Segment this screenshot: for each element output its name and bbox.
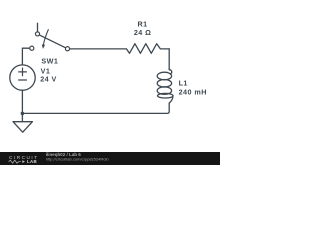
svg-text:LAB: LAB bbox=[27, 159, 37, 164]
svg-text:24 Ω: 24 Ω bbox=[134, 28, 152, 37]
voltage source V1 bbox=[10, 65, 35, 90]
svg-text:L1: L1 bbox=[179, 79, 188, 88]
inductor L1 bbox=[157, 69, 173, 103]
svg-text:http://circuitlab.com/c/pp8z52: http://circuitlab.com/c/pp8z524RGb bbox=[46, 157, 110, 162]
wire bbox=[22, 48, 29, 65]
footer bar bbox=[0, 152, 220, 165]
node A bbox=[21, 112, 25, 116]
ground bbox=[13, 113, 32, 132]
svg-text:24 V: 24 V bbox=[40, 74, 57, 83]
svg-text:SW1: SW1 bbox=[41, 56, 58, 65]
CircuitLab logo bbox=[9, 155, 39, 164]
wire bbox=[70, 48, 127, 50]
wire bbox=[21, 90, 23, 113]
resistor R1 bbox=[126, 44, 169, 54]
wire bbox=[168, 49, 170, 70]
svg-text:240 mH: 240 mH bbox=[179, 88, 207, 97]
svg-text:R1: R1 bbox=[138, 19, 148, 28]
wire bbox=[22, 103, 169, 113]
switch SW1 bbox=[30, 23, 70, 50]
